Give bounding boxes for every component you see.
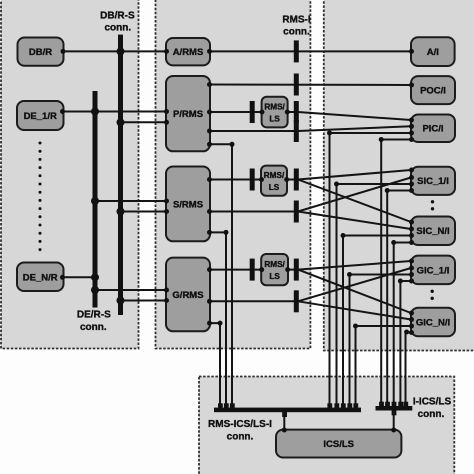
box A/I xyxy=(411,37,455,66)
node dot P riser corner xyxy=(230,142,235,147)
node dot GIC_1/I in4 xyxy=(409,279,414,284)
connector tick RMS-I RMS/LS2 wire xyxy=(294,169,299,191)
bus tick GIC_N right riser xyxy=(403,402,408,407)
wire DB/R to A/RMS xyxy=(64,50,167,52)
wire DB/R-S bus to G/RMS xyxy=(121,300,167,302)
node dot SIC_1 right riser corner xyxy=(385,188,390,193)
node dot RMS/LS1 in xyxy=(260,110,265,115)
junction S entry on DE/R-S bus xyxy=(91,197,99,205)
wire S/RMS to SIC_N/I xyxy=(298,212,411,230)
box POC/I xyxy=(411,76,455,104)
wire RMS/LS 2 to SIC_N/I xyxy=(298,180,411,223)
node dot SIC_N/I in3 xyxy=(409,233,414,238)
box PIC/I xyxy=(411,115,455,143)
node dot SIC_N/I in4 xyxy=(409,240,414,245)
wire RMS/LS 2 to SIC_1/I xyxy=(287,170,411,180)
node dot ICS/LS in left xyxy=(282,428,287,433)
node dot GIC_1 left riser corner xyxy=(347,272,352,277)
node dot A/I in xyxy=(409,49,414,54)
wire G/RMS to GIC_N/I xyxy=(298,301,411,319)
svg-text:GIC_1/I: GIC_1/I xyxy=(417,265,450,276)
node dot A/RMS out xyxy=(207,49,212,54)
wire DB/R-S bus to S/RMS xyxy=(121,211,167,213)
node dot GIC_1/I in3 xyxy=(409,272,414,277)
bus tick ICS left drop xyxy=(282,412,287,417)
wire GIC_1/I riser to I-ICS bus xyxy=(400,281,411,408)
bus tick GIC_1 right riser xyxy=(398,402,403,407)
box G/RMS xyxy=(166,258,210,332)
node dot SIC_1 left riser corner xyxy=(334,182,339,187)
svg-text:A/I: A/I xyxy=(427,47,439,58)
node dot G/RMS out1 xyxy=(207,267,212,272)
wire I-ICS bus to ICS/LS xyxy=(393,410,395,429)
node dot SIC_N/I in1 xyxy=(409,220,414,225)
box S/RMS xyxy=(166,167,210,242)
bus tick SIC_1 left riser xyxy=(334,403,339,408)
node dot S/RMS out3 xyxy=(207,230,212,235)
svg-text:RMS-ICS/LS-I: RMS-ICS/LS-I xyxy=(208,419,272,430)
connector tick RMS-I POC wire xyxy=(294,74,299,96)
node dot RMS/LS2 out xyxy=(284,177,289,182)
connector tick RMS-I G lower wire xyxy=(294,290,299,312)
connector tick RMS/LS3 input xyxy=(250,259,255,281)
node dot PIC left riser corner xyxy=(327,131,332,136)
node dot DE_1/R out xyxy=(60,109,65,114)
wire DB/R-S bus to P/RMS xyxy=(121,121,167,123)
bus I-ICS/LS conn. xyxy=(376,406,413,411)
wire RMS-ICS bus to ICS/LS xyxy=(283,412,285,430)
node dot PIC/I in3 xyxy=(409,131,414,136)
svg-text:RMS-I: RMS-I xyxy=(282,15,311,26)
node dot RMS/LS1 out xyxy=(285,110,290,115)
node dot P/RMS out4 xyxy=(207,142,212,147)
svg-text:LS: LS xyxy=(269,272,280,281)
box SIC_N/I xyxy=(411,217,455,246)
svg-text:conn.: conn. xyxy=(227,432,254,443)
junction DB wire on DB/R-S bus xyxy=(117,47,125,55)
node dot GIC_1 right riser corner xyxy=(398,279,403,284)
svg-text:I-ICS/LS: I-ICS/LS xyxy=(413,397,452,408)
bus tick P riser xyxy=(230,403,235,408)
box ICS/LS xyxy=(276,430,401,458)
node dot PIC/I in2 xyxy=(409,124,414,129)
node dot GIC_N left riser corner xyxy=(353,324,358,329)
bus DB/R-S conn. xyxy=(118,35,123,315)
svg-text:ICS/LS: ICS/LS xyxy=(323,439,354,450)
box DB/R xyxy=(18,38,64,66)
wire SIC_N/I riser to RMS-ICS bus xyxy=(343,236,411,410)
wire P/RMS to PIC/I xyxy=(210,126,411,131)
node dot RMS/LS2 in xyxy=(259,177,264,182)
wire P/RMS to RMS/LS 1 xyxy=(210,111,262,113)
node dot DE_N/R out xyxy=(60,275,65,280)
junction G entry on DE/R-S bus xyxy=(91,286,99,294)
node dot SIC_1/I in4 xyxy=(409,188,414,193)
node dot S/RMS out1 xyxy=(207,177,212,182)
node dot ICS/LS in right xyxy=(391,428,396,433)
box DE_1/R xyxy=(17,101,64,130)
region: ICS group (bottom, dashed) xyxy=(199,377,454,474)
wire GIC_1/I riser to RMS-ICS bus xyxy=(350,275,412,410)
svg-text:P/RMS: P/RMS xyxy=(173,109,203,120)
node dot PIC/I in4 xyxy=(409,137,414,142)
connector tick RMS-I A wire xyxy=(294,40,299,62)
wire G/RMS to RMS/LS 3 xyxy=(210,269,261,271)
connector tick RMS/LS2 input xyxy=(250,169,255,191)
wire A/RMS to A/I xyxy=(210,50,411,52)
bus RMS-ICS/LS-I conn. xyxy=(214,408,361,413)
box GIC_N/I xyxy=(411,308,455,337)
wire PIC/I riser to RMS-ICS bus xyxy=(330,133,412,409)
node dot P/RMS out2 xyxy=(207,110,212,115)
wire SIC_1/I riser to I-ICS bus xyxy=(387,191,411,409)
node dot G/RMS in1 xyxy=(164,288,169,293)
node dot P/RMS in1 xyxy=(164,109,169,114)
box A/RMS xyxy=(166,38,210,65)
node dot S/RMS in1 xyxy=(164,199,169,204)
junction P entry on DB/R-S bus xyxy=(117,118,125,126)
node dot SIC_1/I in1 xyxy=(409,168,414,173)
svg-text:conn.: conn. xyxy=(418,409,445,420)
box RMS/LS 2 xyxy=(261,166,287,196)
svg-text:POC/I: POC/I xyxy=(420,86,446,97)
bus tick G riser xyxy=(218,403,223,408)
ellipsis GIC column xyxy=(431,290,434,293)
svg-text:DB/R-S: DB/R-S xyxy=(100,11,135,22)
wire P/RMS bottom to riser xyxy=(210,144,232,409)
node dot SIC_N left riser corner xyxy=(341,233,346,238)
node dot P/RMS out3 xyxy=(207,129,212,134)
node dot GIC_1/I in2 xyxy=(409,266,414,271)
connector tick RMS-I S lower wire xyxy=(294,201,299,223)
node dot GIC_1/I in1 xyxy=(409,259,414,264)
node dot G riser corner xyxy=(218,321,223,326)
svg-text:DB/R: DB/R xyxy=(29,47,52,58)
node dot SIC_N/I in2 xyxy=(409,227,414,232)
svg-text:DE/R-S: DE/R-S xyxy=(77,310,111,321)
wire GIC_N/I riser to RMS-ICS bus xyxy=(356,326,412,409)
bus tick SIC_1 right riser xyxy=(385,402,390,407)
node dot G/RMS out3 xyxy=(207,321,212,326)
node dot P/RMS in2 xyxy=(164,120,169,125)
node dot RMS/LS3 in xyxy=(259,267,264,272)
node dot GIC_N/I in2 xyxy=(409,317,414,322)
wire RMS/LS 3 to GIC_1/I xyxy=(288,261,411,270)
bus tick S riser xyxy=(224,403,229,408)
region: DB/DE reservoir group (left, dashed) xyxy=(1,0,139,349)
node dot DB/R out xyxy=(61,49,66,54)
node dot SIC_1/I in2 xyxy=(409,175,414,180)
box P/RMS xyxy=(166,76,210,151)
node dot RMS/LS3 out xyxy=(285,267,290,272)
svg-text:LS: LS xyxy=(269,115,280,124)
region: RMS group (middle, dashed) xyxy=(156,0,311,349)
junction S entry on DB/R-S bus xyxy=(117,208,125,216)
wire P/RMS to POC/I xyxy=(210,84,411,87)
bus tick SIC_N left riser xyxy=(341,403,346,408)
svg-text:RMS/: RMS/ xyxy=(264,103,285,112)
ellipsis DE column xyxy=(39,142,42,252)
node dot PIC right riser corner xyxy=(379,137,384,142)
wire DE/R-S bus to G/RMS xyxy=(95,289,166,291)
node dot S/RMS out2 xyxy=(207,209,212,214)
bus tick GIC_N left riser xyxy=(353,403,358,408)
wire G/RMS bottom to riser xyxy=(210,323,220,409)
svg-text:LS: LS xyxy=(269,183,280,192)
svg-text:PIC/I: PIC/I xyxy=(422,124,443,135)
svg-text:RMS/: RMS/ xyxy=(264,260,285,269)
box SIC_1/I xyxy=(411,167,455,195)
wire PIC/I riser to I-ICS bus xyxy=(381,140,411,409)
node dot SIC_1/I in3 xyxy=(409,182,414,187)
wire SIC_N/I riser to I-ICS bus xyxy=(394,243,411,409)
node dot G/RMS out2 xyxy=(207,299,212,304)
node dot GIC_N/I in1 xyxy=(409,311,414,316)
node dot SIC_N right riser corner xyxy=(391,240,396,245)
svg-text:G/RMS: G/RMS xyxy=(172,290,203,301)
box RMS/LS 3 xyxy=(261,254,288,285)
wire RMS/LS 1 to PIC/I xyxy=(288,112,411,120)
box RMS/LS 1 xyxy=(262,97,288,128)
junction G entry on DB/R-S bus xyxy=(117,297,125,305)
node dot GIC_N/I in4 xyxy=(409,330,414,335)
ellipsis SIC column xyxy=(431,200,434,203)
svg-text:conn.: conn. xyxy=(283,27,310,38)
region: I group (right, dashed) xyxy=(324,0,474,351)
node dot S riser corner xyxy=(224,230,229,235)
wire DE_1/R to P/RMS xyxy=(62,111,166,113)
svg-text:conn.: conn. xyxy=(104,23,131,34)
wire S/RMS to RMS/LS 2 xyxy=(210,179,261,181)
wire GIC_N/I riser to I-ICS bus xyxy=(406,333,412,409)
wire DE_N/R to DE/R-S bus xyxy=(62,276,95,278)
connector tick RMS-I RMS/LS1 wire xyxy=(294,101,299,123)
node dot A/RMS in xyxy=(164,49,169,54)
junction DE_N wire on DE/R-S bus xyxy=(91,273,99,281)
connector tick RMS-I RMS/LS3 wire xyxy=(294,259,299,281)
box DE_N/R xyxy=(17,263,64,292)
wire G/RMS to GIC_1/I xyxy=(210,268,411,301)
node dot GIC_N/I in3 xyxy=(409,324,414,329)
bus tick SIC_N right riser xyxy=(392,402,397,407)
node dot POC/I in xyxy=(409,83,414,88)
svg-text:conn.: conn. xyxy=(80,322,107,333)
bus tick ICS right drop xyxy=(392,410,397,415)
wire S/RMS to SIC_1/I xyxy=(210,178,411,212)
node dot P/RMS out1 xyxy=(207,82,212,87)
node dot G/RMS in2 xyxy=(164,298,169,303)
connector tick RMS-I P lower wire xyxy=(294,120,299,142)
node dot S/RMS in2 xyxy=(164,209,169,214)
wire DE/R-S bus to S/RMS xyxy=(95,200,166,202)
svg-text:DE_N/R: DE_N/R xyxy=(23,273,58,284)
svg-text:SIC_N/I: SIC_N/I xyxy=(416,226,449,237)
svg-text:RMS/: RMS/ xyxy=(264,171,285,180)
svg-text:SIC_1/I: SIC_1/I xyxy=(417,176,449,187)
svg-text:DE_1/R: DE_1/R xyxy=(24,111,57,122)
bus tick GIC_1 left riser xyxy=(347,403,352,408)
wire RMS/LS 3 to GIC_N/I xyxy=(298,270,411,313)
wire SIC_1/I riser to RMS-ICS bus xyxy=(337,184,412,409)
junction DE_1 wire on DE/R-S bus xyxy=(91,108,99,116)
bus tick PIC left riser xyxy=(327,403,332,408)
node dot GIC_N right riser corner xyxy=(404,330,409,335)
box GIC_1/I xyxy=(411,256,455,285)
bus DE/R-S conn. xyxy=(93,91,98,308)
node dot PIC/I in1 xyxy=(409,118,414,123)
connector tick RMS/LS1 input xyxy=(250,101,255,123)
svg-text:A/RMS: A/RMS xyxy=(173,47,204,58)
bus tick PIC right riser xyxy=(379,402,384,407)
svg-text:S/RMS: S/RMS xyxy=(173,200,203,211)
svg-text:GIC_N/I: GIC_N/I xyxy=(416,317,450,328)
wire S/RMS bottom to riser xyxy=(210,232,226,409)
